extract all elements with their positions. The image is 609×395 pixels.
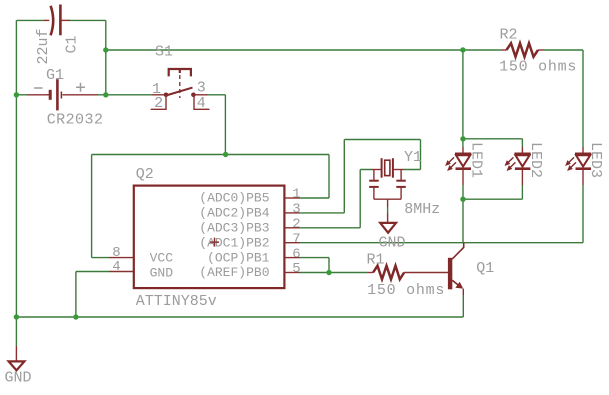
svg-text:R1: R1 (367, 252, 385, 269)
wire battery row to switch pin1 (106, 94, 152, 96)
switch S1 actuator bracket (169, 69, 191, 76)
svg-text:3: 3 (197, 80, 206, 97)
resonator cap right bottom plate (396, 186, 406, 188)
LED1 triangle (456, 155, 470, 166)
svg-text:LED1: LED1 (468, 142, 485, 178)
LED2 arrow 2 (509, 162, 515, 168)
wire pin5 net to R1 (300, 272, 368, 274)
junction dot top rail / LED branch (460, 47, 465, 52)
crystal Y1 body rect (385, 160, 390, 175)
junction dot VCC node (223, 152, 228, 157)
svg-text:150 ohms: 150 ohms (367, 282, 445, 299)
wire LED bottoms down to pin7 net (462, 199, 464, 243)
capacitor C1 straight plate (59, 5, 62, 36)
battery G1 plus lead (63, 94, 99, 96)
svg-text:(ADC0)PB5: (ADC0)PB5 (199, 191, 269, 206)
resonator cap left bottom plate (369, 186, 379, 188)
wire LED3 down to pin7 net (582, 185, 584, 243)
LED2 anode lead (521, 147, 523, 154)
IC pin 8 lead (109, 257, 134, 259)
wire Q1 emitter to bottom rail (462, 289, 464, 295)
wire top rail y=50 left segment (106, 49, 463, 51)
wire ground stub bottom-left (15, 317, 17, 346)
transistor Q1 emitter arrowhead (455, 282, 463, 289)
LED3 anode lead (582, 147, 584, 154)
LED3 arrow 2 (570, 162, 576, 168)
svg-text:4: 4 (197, 95, 206, 112)
battery G1 long plate (56, 79, 59, 110)
svg-text:2: 2 (154, 95, 163, 112)
LED2 anode bar (514, 153, 530, 156)
LED1 arrowhead 2 (447, 165, 453, 171)
wire vertical x=105.8 from C1 down to battery row (105, 20, 107, 94)
svg-text:Y1: Y1 (404, 149, 422, 166)
switch S1 left contact (164, 93, 169, 98)
switch S1 actuator stem (179, 69, 181, 73)
ground pin lead bottom-left (15, 346, 17, 361)
junction dot LED1/LED2 bottom (460, 197, 465, 202)
wire battery plus to junction (98, 94, 106, 96)
resistor R1 zigzag (373, 266, 404, 280)
switch S1 pin4 lead (194, 95, 210, 109)
LED1 arrow 1 (448, 157, 454, 163)
junction dot pin5/pin6 (326, 270, 331, 275)
wire junction down to LED1 (462, 50, 464, 147)
svg-text:VCC: VCC (150, 251, 174, 266)
IC pin 2 lead (284, 227, 299, 229)
IC pin 4 lead (109, 271, 134, 273)
wire R2 to LED3 top corner (544, 50, 583, 147)
label battery plus sign (76, 83, 85, 92)
wire pin1 to VCC node (300, 155, 330, 199)
svg-text:Q2: Q2 (136, 166, 154, 183)
wire VCC into IC pin8 (92, 257, 109, 259)
svg-text:7: 7 (292, 231, 300, 247)
wire vertical x=225.4 switch to VCC node (224, 95, 226, 155)
resistor R2 zigzag (507, 43, 539, 57)
wire C1 right lead (62, 19, 71, 21)
R2 right lead (538, 49, 544, 51)
battery G1 small plate tick (60, 92, 62, 99)
wire emitter down green (462, 295, 464, 317)
crystal Y1 right plate (392, 158, 394, 178)
svg-text:(AREF)PB0: (AREF)PB0 (199, 265, 269, 280)
junction dot battery plus (103, 92, 108, 97)
switch S1 lever (166, 88, 193, 96)
svg-text:3: 3 (292, 202, 300, 218)
LED3 anode bar (575, 153, 591, 156)
LED3 cathode bar (576, 167, 592, 170)
svg-text:6: 6 (292, 246, 300, 262)
battery G1 minus lead (27, 94, 49, 96)
junction dot LED1/LED2 top (460, 136, 465, 141)
wire pin7 net to LEDs and Q1 collector (300, 242, 584, 244)
LED1 anode bar (455, 153, 471, 156)
ground symbol crystal (380, 223, 396, 233)
LED3 arrowhead 1 (565, 160, 571, 166)
wire top-left from left rail to C1 (16, 19, 44, 21)
wire pin5 stub into R1 (368, 272, 374, 274)
svg-text:GND: GND (150, 265, 174, 280)
LED2 arrowhead 2 (507, 165, 513, 171)
IC pin 5 lead (284, 272, 299, 274)
LED2 triangle (515, 155, 529, 166)
IC U-ATTINY85 body (134, 186, 285, 289)
wire battery minus net (16, 94, 27, 96)
switch S1 pin1 lead (152, 94, 164, 96)
wire C1 to top rail corner (70, 19, 106, 21)
junction cross over ADC1 text (210, 238, 219, 247)
ground symbol bottom-left (9, 361, 25, 370)
wire top rail R2 left stub (463, 49, 502, 51)
junction dot left rail / bottom rail (14, 314, 19, 319)
LED1 cathode bar (456, 167, 472, 170)
LED3 arrowhead 2 (567, 165, 573, 171)
switch S1 pin3 lead (196, 94, 208, 96)
LED1 arrowhead 1 (445, 160, 451, 166)
junction dot battery minus / left rail (14, 92, 19, 97)
R2 left lead (502, 49, 507, 51)
svg-text:G1: G1 (46, 67, 64, 84)
svg-text:S1: S1 (155, 44, 173, 61)
svg-text:LED2: LED2 (527, 142, 544, 178)
wire crystal gnd stub (387, 207, 389, 213)
switch S1 pin2 lead (151, 95, 166, 109)
wire switch pin3 to corner (208, 94, 226, 96)
transistor Q1 emitter (452, 280, 461, 287)
LED2 cathode bar (515, 167, 531, 170)
crystal Y1 left plate (381, 158, 383, 178)
junction dot IC gnd / bottom rail (73, 314, 78, 319)
wire IC GND pin to bottom rail (76, 272, 109, 318)
wire LED2 bottom branch (463, 185, 522, 199)
LED1 arrow 2 (450, 162, 456, 168)
wire bottom rail y=317 (16, 316, 463, 318)
wire pin3 to crystal right side (300, 140, 421, 213)
wire VCC left drop x=91.6 (91, 155, 93, 258)
svg-text:LED3: LED3 (587, 142, 604, 178)
svg-text:8MHz: 8MHz (404, 201, 440, 218)
IC pin 1 lead (284, 197, 299, 199)
IC pin 3 lead (284, 212, 299, 214)
battery G1 short plate (49, 90, 52, 100)
svg-text:C1: C1 (64, 35, 81, 53)
R1 lead to Q1 base (404, 272, 448, 274)
wire pin2 to crystal left side (300, 170, 372, 228)
wire LED1 to bottom junction (462, 185, 464, 199)
resonator internal connections (374, 170, 401, 208)
resonator cap left top plate (369, 180, 379, 182)
transistor Q1 collector (452, 243, 463, 259)
svg-text:4: 4 (112, 259, 120, 275)
capacitor C1 curved plate (51, 6, 54, 36)
LED1 anode lead (462, 147, 464, 154)
LED1 cathode lead (462, 170, 464, 185)
svg-text:(OCP)PB1: (OCP)PB1 (207, 250, 270, 265)
wire LED2 top branch (463, 139, 523, 147)
wire C1 left lead (44, 19, 49, 21)
ground pin lead crystal (387, 213, 389, 223)
svg-text:GND: GND (379, 235, 406, 252)
svg-text:(ADC3)PB3: (ADC3)PB3 (199, 221, 269, 236)
IC pin 7 lead (284, 242, 299, 244)
svg-text:150 ohms: 150 ohms (499, 59, 577, 76)
svg-text:R2: R2 (500, 27, 518, 44)
label battery minus sign (34, 87, 43, 89)
svg-text:22uf: 22uf (35, 28, 52, 64)
svg-text:(ADC2)PB4: (ADC2)PB4 (199, 206, 269, 221)
transistor Q1 base bar (448, 258, 452, 290)
svg-text:(ADC1)PB2: (ADC1)PB2 (199, 235, 269, 250)
junction dot C1 / top rail (103, 47, 108, 52)
LED2 cathode lead (521, 170, 523, 185)
svg-text:Q1: Q1 (476, 260, 494, 277)
LED2 arrow 1 (507, 157, 513, 163)
wire VCC node horizontal y=154.5 (92, 154, 329, 156)
svg-text:ATTINY85v: ATTINY85v (136, 293, 217, 310)
svg-text:2: 2 (292, 217, 300, 233)
switch S1 right contact (191, 93, 196, 98)
svg-text:5: 5 (292, 261, 300, 277)
svg-text:CR2032: CR2032 (47, 112, 104, 129)
svg-text:GND: GND (5, 370, 32, 387)
wire left rail x=16.4 (15, 20, 17, 317)
LED2 arrowhead 1 (505, 160, 511, 166)
switch S1 dashed plunger line (179, 75, 181, 98)
LED3 cathode lead (582, 170, 584, 185)
IC pin 6 lead (284, 257, 299, 259)
svg-text:1: 1 (292, 187, 300, 203)
resonator cap right top plate (396, 180, 406, 182)
crystal right plate lead (393, 169, 404, 171)
LED3 triangle (576, 155, 590, 166)
crystal left plate lead (371, 169, 382, 171)
wire pin6 down to pin5 net (300, 258, 330, 273)
LED3 arrow 1 (568, 157, 574, 163)
